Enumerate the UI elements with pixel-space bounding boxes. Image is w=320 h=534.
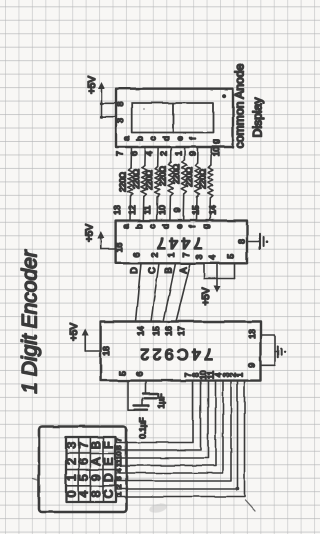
svg-text:17: 17	[176, 326, 186, 336]
wire 74C922 pin6 down	[145, 381, 147, 394]
svg-text:5: 5	[225, 254, 235, 259]
7447 output b label	[135, 224, 144, 229]
svg-text:1: 1	[173, 151, 183, 156]
capacitor C1 value 1uF	[156, 394, 166, 409]
74C922 pin 11 label (bottom)	[207, 371, 216, 379]
keypad key B	[89, 441, 103, 449]
signal B label	[164, 267, 174, 273]
wire bus to +5V arrow	[216, 279, 218, 289]
keypad pin 1 label	[114, 492, 123, 496]
svg-text:F: F	[102, 441, 116, 448]
74C922 pin 15 label	[151, 326, 161, 336]
keypad pin 4 label	[114, 469, 123, 473]
7447 input pin 1 label	[166, 252, 176, 257]
IC U1 name 7447	[154, 234, 203, 251]
svg-text:g: g	[201, 224, 210, 228]
wire display segment c upper	[157, 147, 159, 166]
IC U2 74C922 keyboard encoder outline	[101, 322, 261, 381]
wire display segment b upper	[143, 147, 145, 165]
ground (74C922 pins 13,9)	[278, 346, 286, 357]
svg-text:220Ω: 220Ω	[185, 167, 194, 187]
svg-text:a: a	[122, 136, 131, 141]
display decimal point	[223, 94, 227, 98]
svg-text:9: 9	[187, 151, 197, 156]
svg-text:+5V: +5V	[87, 76, 98, 94]
power +5V (display anode supply)	[87, 76, 105, 119]
svg-text:13: 13	[247, 329, 257, 339]
svg-text:b: b	[135, 136, 144, 141]
keypad key 2	[65, 458, 79, 465]
wire 74C922 pin13/pin9 to ground loop	[261, 335, 276, 365]
svg-text:common Anode: common Anode	[233, 63, 247, 148]
74C922 pin 7 label (bottom)	[184, 373, 193, 377]
wire display pin8 to +5V	[102, 102, 117, 104]
7447 output g label	[201, 224, 210, 228]
wire resistor R3 to 7447 pin 11	[156, 197, 159, 221]
74C922 pin 14 label	[135, 326, 145, 336]
capacitor C1 1uF	[143, 394, 158, 398]
label common Anode	[233, 63, 247, 148]
resistor R3 value label 220Ω	[145, 170, 154, 190]
title 1 Digit Encoder	[19, 249, 42, 394]
wire display segment g upper	[210, 147, 212, 165]
power +5V (74C922 Vcc)	[69, 323, 89, 351]
svg-text:D: D	[129, 267, 139, 274]
wire BCD B 7447 to 74C922	[164, 263, 176, 321]
keypad key 7	[77, 442, 91, 449]
svg-text:220Ω: 220Ω	[158, 166, 167, 186]
wire +5V to 74C922 pin18	[85, 350, 100, 352]
7447 pin 4 label	[207, 255, 217, 260]
svg-text:4: 4	[207, 255, 217, 260]
keypad key E	[102, 457, 116, 465]
ground (7447 pin8)	[260, 234, 268, 249]
74C922 pin 2 label (bottom)	[229, 373, 238, 377]
svg-text:6: 6	[131, 252, 141, 257]
svg-text:d: d	[162, 136, 171, 140]
wire keypad line 11	[116, 381, 216, 466]
resistor R1 220 ohm	[128, 168, 134, 196]
svg-text:d: d	[162, 224, 171, 228]
display segment letter b	[135, 136, 144, 141]
74C922 pin 6 label	[134, 371, 144, 376]
wire 7447 pin5 down	[234, 263, 236, 278]
capacitor C2 value 0.1uF	[139, 417, 148, 438]
svg-text:10: 10	[211, 147, 221, 157]
svg-text:12: 12	[127, 205, 137, 215]
keypad key 8	[89, 490, 103, 497]
keypad key D	[102, 473, 116, 482]
svg-text:220Ω: 220Ω	[132, 169, 141, 189]
svg-text:A: A	[179, 267, 189, 273]
signal C label	[147, 267, 157, 274]
7447 pin 8 label	[236, 239, 246, 244]
svg-text:+5V: +5V	[85, 224, 96, 242]
small tick left of keypad	[33, 479, 38, 481]
wire BCD D 7447 to 74C922	[136, 263, 142, 321]
svg-text:D: D	[102, 473, 116, 482]
svg-text:9: 9	[172, 207, 182, 212]
7447 pin 16 label	[114, 243, 124, 253]
svg-text:220Ω: 220Ω	[145, 170, 154, 190]
wire keypad line 4	[116, 381, 224, 473]
svg-text:18: 18	[101, 346, 111, 356]
svg-text:14: 14	[207, 205, 217, 215]
display pin 9 label	[187, 151, 197, 156]
svg-text:7: 7	[114, 151, 124, 156]
display pin 10 label	[211, 147, 221, 157]
svg-text:e: e	[175, 136, 184, 141]
7447 input pin 6 label	[131, 252, 141, 257]
svg-text:C: C	[147, 267, 157, 274]
svg-text:74C922: 74C922	[137, 345, 213, 362]
display segment letter c	[149, 137, 158, 141]
display pin 6 label	[129, 151, 139, 156]
7447 input pin 7 label	[181, 252, 191, 257]
display segment letter f	[189, 137, 198, 140]
signal A label	[179, 267, 189, 273]
7447 pin 3 label	[194, 254, 204, 259]
keypad key F	[102, 441, 116, 448]
keypad key C	[102, 489, 116, 498]
label Display	[251, 97, 265, 138]
resistor R2 220 ohm	[141, 165, 147, 196]
svg-text:4: 4	[144, 151, 154, 156]
keypad key 3	[65, 442, 79, 449]
7447 pin 14 label	[207, 205, 217, 215]
wire resistor R1 to 7447 pin 13	[129, 196, 132, 221]
svg-text:C: C	[102, 489, 116, 498]
resistor R7 220 ohm	[208, 165, 214, 198]
svg-text:a: a	[122, 224, 131, 229]
wire 7447 pin8 to ground	[247, 241, 260, 243]
svg-text:g: g	[211, 139, 220, 143]
wire display pin3 to +5V	[102, 116, 117, 118]
svg-text:1: 1	[236, 373, 245, 377]
wire keypad line 7	[116, 381, 194, 443]
svg-text:2: 2	[158, 151, 168, 156]
signal D label	[129, 267, 139, 274]
wire 7447 pin3 down	[203, 263, 205, 278]
pencil smudge below keypad wires	[148, 502, 167, 515]
74C922 pin 13 label	[247, 329, 257, 339]
keypad pin 10 label	[114, 452, 123, 460]
keypad key 1	[65, 474, 79, 481]
resistor R4 value label 220Ω	[158, 166, 167, 186]
IC U1 74L47 BCD decoder outline	[116, 221, 247, 264]
svg-text:8: 8	[236, 239, 246, 244]
74C922 pin 18 label	[101, 346, 111, 356]
svg-text:8: 8	[115, 101, 125, 106]
keypad key 4	[77, 490, 91, 497]
display pin 7 label	[114, 151, 124, 156]
keypad outer frame	[39, 427, 127, 513]
resistor R5 value label 220Ω	[172, 164, 181, 184]
7447 pin 5 label	[225, 254, 235, 259]
wire ground stub	[275, 351, 278, 353]
power +5V (7447 Vcc)	[85, 224, 105, 249]
capacitor C2 0.1uF	[134, 398, 149, 409]
7447 pin 11 label	[142, 205, 152, 214]
svg-text:11: 11	[142, 205, 152, 214]
svg-text:220Ω: 220Ω	[172, 164, 181, 184]
wire keypad line 2	[116, 381, 238, 489]
wire BCD A 7447 to 74C922	[176, 263, 191, 321]
7447 pin 13 label	[112, 205, 122, 215]
7447 output a label	[122, 224, 131, 229]
wire keypad line 10	[116, 381, 209, 458]
svg-text:9: 9	[247, 363, 257, 368]
svg-text:6: 6	[129, 151, 139, 156]
svg-text:+5V: +5V	[69, 323, 80, 341]
svg-text:15: 15	[151, 326, 161, 336]
svg-text:1: 1	[166, 252, 176, 257]
svg-text:+5V: +5V	[201, 287, 212, 305]
keypad key 0	[65, 490, 79, 497]
keypad pin 3 label	[114, 477, 123, 481]
keypad grid lines	[66, 437, 116, 502]
svg-text:14: 14	[135, 326, 145, 336]
display pin 2 label	[158, 151, 168, 156]
74C922 pin 4 label (bottom)	[214, 372, 223, 377]
7447 pin 9 label	[172, 207, 182, 212]
74C922 pin 1 label (bottom)	[236, 373, 245, 377]
7447 output d label	[162, 224, 171, 228]
svg-text:B: B	[164, 267, 174, 273]
7447 pin 12 label	[127, 205, 137, 215]
svg-text:3: 3	[194, 254, 204, 259]
keypad pin 8 label	[114, 446, 123, 450]
svg-text:e: e	[175, 224, 184, 229]
wire keypad line 1	[116, 381, 245, 497]
display segment letter e	[175, 136, 184, 141]
resistor R5 220 ohm	[181, 160, 187, 194]
display DS1 (7-segment, common anode) outline	[116, 89, 233, 147]
svg-text:1µF: 1µF	[156, 394, 166, 409]
74C922 pin 3 label (bottom)	[222, 373, 231, 377]
wire resistor R6 to 7447 pin 15	[196, 197, 199, 221]
display pin 1 label	[173, 151, 183, 156]
7447 output e label	[175, 224, 184, 229]
svg-text:10: 10	[157, 205, 167, 215]
IC U2 name 74C922	[137, 345, 213, 362]
keypad key A	[89, 457, 103, 466]
svg-text:220Ω: 220Ω	[198, 169, 207, 189]
display pin 3 label	[115, 118, 125, 123]
wire keypad line 8	[116, 381, 201, 450]
svg-text:1 Digit Encoder: 1 Digit Encoder	[19, 249, 42, 394]
svg-text:7447: 7447	[154, 234, 203, 251]
svg-text:c: c	[149, 137, 158, 141]
small speck near display	[142, 107, 144, 109]
power +5V (7447 pins 3,4,5)	[201, 286, 220, 306]
svg-text:16: 16	[114, 243, 124, 253]
stray pen stroke bottom right	[245, 500, 255, 511]
svg-text:Display: Display	[251, 97, 265, 138]
wire resistor R7 to 7447 pin 14	[209, 198, 212, 221]
74C922 pin 16 label	[163, 326, 173, 336]
keypad pin 11 label	[114, 459, 123, 466]
keypad pin 7 label	[114, 438, 123, 442]
resistor R6 value label 220Ω	[185, 167, 194, 187]
wire BCD C 7447 to 74C922	[151, 263, 159, 321]
7447 output f label	[188, 225, 197, 228]
svg-text:6: 6	[134, 371, 144, 376]
svg-text:220Ω: 220Ω	[118, 172, 127, 192]
display segment letter a	[122, 136, 131, 141]
display pin 4 label	[144, 151, 154, 156]
wire display segment a upper	[130, 147, 132, 168]
svg-text:16: 16	[163, 326, 173, 336]
wire resistor R2 to 7447 pin 12	[142, 196, 145, 221]
74C922 pin 9 label	[247, 363, 257, 368]
svg-text:2: 2	[149, 252, 159, 257]
wire resistor R5 to 7447 pin 9	[182, 194, 185, 221]
7447 input pin 2 label	[149, 252, 159, 257]
wire display segment e upper	[183, 147, 185, 160]
svg-text:13: 13	[112, 205, 122, 215]
wire 7447 pin4 down	[216, 263, 218, 278]
display pin 8 label	[115, 101, 125, 106]
keypad key 6	[77, 458, 91, 465]
svg-text:f: f	[189, 137, 198, 140]
svg-text:E: E	[102, 457, 116, 465]
keypad key 9	[89, 474, 103, 481]
wire LT/BI/RBI bus	[204, 278, 235, 280]
keypad pin 2 label	[114, 485, 123, 489]
svg-text:c: c	[148, 225, 157, 229]
keypad key 5	[77, 474, 91, 481]
wire +5V to 7447 pin16	[101, 248, 116, 250]
resistor R1 value label 220Ω	[118, 172, 127, 192]
wire 74C922 pin5 down	[128, 381, 135, 411]
resistor R7 value label 220Ω	[198, 169, 207, 189]
svg-text:f: f	[188, 225, 197, 228]
74C922 pin 5 label	[117, 371, 127, 376]
svg-text:b: b	[135, 224, 144, 229]
resistor R6 220 ohm	[195, 163, 201, 197]
junction dot keypad wire 2	[236, 487, 240, 491]
svg-text:0.1µF: 0.1µF	[139, 417, 148, 438]
display segment letter g	[211, 139, 220, 143]
wire display segment f upper	[197, 147, 199, 163]
display segment letter d	[162, 136, 171, 140]
74C922 pin 8 label (bottom)	[192, 373, 201, 377]
display DS1 inner window	[132, 103, 214, 133]
wire keypad line 3	[116, 381, 232, 481]
svg-text:5: 5	[117, 371, 127, 376]
resistor R2 value label 220Ω	[132, 169, 141, 189]
7447 pin 10 label	[157, 205, 167, 215]
resistor R4 220 ohm	[168, 162, 174, 196]
svg-text:3: 3	[115, 118, 125, 123]
74C922 pin 17 label	[176, 326, 186, 336]
wire display segment d upper	[170, 147, 172, 162]
74C922 pin 10 label (bottom)	[199, 370, 208, 379]
7447 pin 15 label	[191, 205, 201, 215]
wire resistor R4 to 7447 pin 10	[169, 196, 172, 221]
svg-text:15: 15	[191, 205, 201, 215]
7447 output c label	[148, 225, 157, 229]
keypad inner frame	[66, 437, 116, 502]
svg-text:7: 7	[181, 252, 191, 257]
resistor R3 220 ohm	[155, 166, 161, 197]
